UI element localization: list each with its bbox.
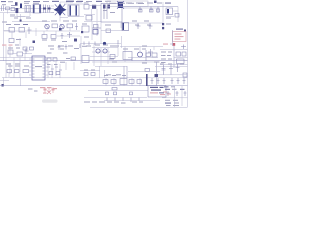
wire top-left bus <box>12 12 50 22</box>
bus row4 upper <box>10 77 188 79</box>
node L (AC live entry) <box>20 4 22 9</box>
pair vertical lines center <box>124 66 127 78</box>
transistor Q2 <box>45 24 49 29</box>
label sticker <box>42 100 58 103</box>
varistor RV1 <box>16 8 19 17</box>
capacitor CX1 <box>11 8 15 11</box>
capacitor CX2 <box>33 5 41 14</box>
wire bridge out <box>60 2 68 22</box>
switch transistor Q1 <box>117 1 124 9</box>
connector J1 <box>2 6 4 12</box>
node dark top <box>154 1 157 4</box>
optocoupler section <box>160 43 188 68</box>
resistor R14 <box>42 35 47 41</box>
standby transformer T3 <box>163 2 179 22</box>
fan note (pink) <box>40 87 57 94</box>
IC U1 PWM controller <box>29 56 48 80</box>
note box top right <box>107 1 148 7</box>
vertical feed right <box>156 62 158 86</box>
wire left mid <box>10 14 30 22</box>
dark node <box>74 39 77 42</box>
capacitors CY1 CY2 <box>43 5 51 14</box>
text labels mid row2 <box>42 21 77 22</box>
resistor R8 <box>19 28 25 33</box>
red text row3 <box>2 45 19 46</box>
primary ground bus <box>0 60 188 62</box>
text row3 left lower <box>8 48 20 49</box>
right border <box>187 0 189 107</box>
resistor R22 <box>23 47 27 50</box>
red marks bottom <box>160 94 165 95</box>
wires left of IC <box>6 54 25 78</box>
wire AC bottom <box>0 12 54 14</box>
transformer T1 <box>64 4 84 17</box>
bottom left tiny text <box>28 89 38 92</box>
text row top-left second <box>10 15 31 19</box>
resistor R15 <box>51 35 67 43</box>
aux supply section <box>81 36 120 66</box>
output filter cluster <box>103 75 142 86</box>
resistor R4 <box>84 16 101 22</box>
caps right row4 <box>151 78 186 84</box>
capacitor C5 <box>84 3 89 10</box>
wire AC top <box>0 8 54 10</box>
cluster right of IC <box>47 62 62 78</box>
parts under left bus (pink mini circuit) <box>44 87 55 93</box>
feedback section <box>120 46 163 72</box>
capacitor C11 <box>57 32 80 39</box>
transformer T2 main <box>101 4 122 23</box>
resistor R7 <box>9 28 15 33</box>
resistor R12 <box>52 24 58 28</box>
text left of IC <box>6 64 20 65</box>
title text row <box>1 1 111 6</box>
capacitor C15 <box>25 48 29 54</box>
diode D7 <box>9 39 35 44</box>
wire row2 <box>4 28 40 38</box>
wire row2 bus <box>40 28 80 35</box>
wire primary left drop <box>4 13 11 61</box>
resistor R20 <box>8 50 13 54</box>
capacitor C20 <box>157 7 160 14</box>
regulator bar right <box>146 74 148 86</box>
small parts center row4 <box>84 70 95 76</box>
text bottom mid <box>132 102 137 103</box>
wire bottom <box>104 100 160 102</box>
bus second line <box>0 57 57 59</box>
bottom right cluster <box>162 86 188 107</box>
wire stub left <box>19 38 21 46</box>
small parts left row4 <box>0 66 32 87</box>
standby section right <box>162 20 171 30</box>
output note box bottom <box>148 86 166 98</box>
wire y70 center <box>80 70 100 72</box>
wires left row3 <box>6 46 10 61</box>
text labels filter <box>2 3 39 6</box>
diode D5 <box>92 5 96 9</box>
text above bus mid <box>47 46 91 54</box>
red output connector box <box>173 32 187 42</box>
diode D11 <box>150 7 154 13</box>
wire to bridge <box>51 6 54 13</box>
text T1 <box>66 1 82 2</box>
resistor R21 <box>13 52 32 56</box>
bottom border <box>90 107 188 109</box>
label above red box <box>176 29 186 32</box>
text row2 left <box>2 22 28 26</box>
fuse F1 <box>6 7 10 14</box>
base drive block <box>80 22 122 48</box>
wire secondary bus <box>123 6 178 8</box>
text mid-row3 <box>74 48 79 49</box>
text labels row3 mid <box>48 46 73 50</box>
snubber row right of transformer <box>101 21 163 31</box>
labels secondary <box>126 3 162 4</box>
bus row4 lower <box>0 85 188 87</box>
junction dark row2 <box>59 28 62 31</box>
vertical drops center row4 <box>66 62 105 78</box>
bottom center wires <box>84 88 148 104</box>
transistor Q3 <box>60 24 64 29</box>
wire y66 center <box>95 66 127 68</box>
wire center top <box>84 6 101 22</box>
wire into red box <box>170 30 173 46</box>
capacitor C10 <box>75 23 78 30</box>
resistor R13 <box>67 24 73 28</box>
diode D10 <box>139 7 143 13</box>
rectifier row right <box>155 64 188 78</box>
choke L2 <box>25 6 31 13</box>
capacitor C8 <box>28 27 32 34</box>
bridge rectifier BR1 <box>54 4 67 17</box>
resistor R23 <box>30 47 34 50</box>
capacitors on bus mid <box>47 44 80 63</box>
